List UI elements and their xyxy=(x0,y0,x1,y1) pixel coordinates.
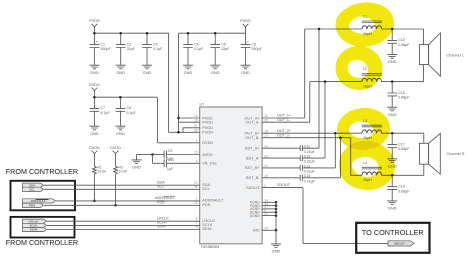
node DGND2 bus xyxy=(275,214,278,217)
connector box TO CONTROLLER xyxy=(356,223,429,253)
svg-text:10.0k: 10.0k xyxy=(97,170,106,174)
svg-text:1: 1 xyxy=(196,197,198,201)
svg-text:OUT_B-: OUT_B- xyxy=(245,135,260,140)
node PVDD rail at C2 xyxy=(119,32,122,35)
ground C18 xyxy=(387,201,397,211)
power symbol DVDD R2 xyxy=(110,146,121,154)
wire C14 to riser xyxy=(303,177,341,179)
power symbol PVDD left xyxy=(89,19,100,27)
wire C18 to ground xyxy=(391,190,393,201)
wire L1 to speaker L top xyxy=(382,28,424,30)
wire speaker R top lead xyxy=(423,133,425,143)
svg-text:C16: C16 xyxy=(398,91,405,95)
svg-text:AVDD: AVDD xyxy=(202,152,213,157)
resistor R2 xyxy=(114,166,128,175)
tag SDA xyxy=(23,183,44,187)
svg-text:L4: L4 xyxy=(363,161,367,165)
capacitor C15 xyxy=(387,38,410,47)
wire speaker R bottom lead xyxy=(423,164,425,175)
wire C11 riser xyxy=(318,29,320,148)
svg-text:FROM CONTROLLER: FROM CONTROLLER xyxy=(6,167,78,176)
svg-text:BST_B+: BST_B+ xyxy=(245,165,260,170)
svg-text:C18: C18 xyxy=(398,185,405,189)
tag LRCLK xyxy=(23,219,47,223)
ground C2 xyxy=(116,65,126,75)
svg-text:PAD: PAD xyxy=(253,229,260,233)
wire C17 to ground xyxy=(391,148,393,159)
node AGND bus xyxy=(275,208,278,211)
node PVDD rail at C4 xyxy=(187,32,190,35)
svg-text:GND: GND xyxy=(132,165,141,170)
svg-text:U?: U? xyxy=(200,102,205,106)
svg-text:10.0k: 10.0k xyxy=(119,170,128,174)
capacitor C6 xyxy=(241,39,263,51)
wire PVDD feed left vertical xyxy=(168,33,170,132)
svg-text:SDOUT: SDOUT xyxy=(246,185,260,190)
node PVDD rail at C5 xyxy=(214,32,217,35)
connector box FROM CONTROLLER 1 xyxy=(11,181,76,211)
net label ADR/FAULT xyxy=(155,196,176,200)
U1 right pin name labels xyxy=(244,115,260,232)
svg-text:OUT_1-: OUT_1- xyxy=(277,118,291,122)
svg-text:GND: GND xyxy=(272,249,281,254)
node PAD bus xyxy=(275,229,278,232)
svg-text:C8: C8 xyxy=(126,106,131,110)
capacitor C8 xyxy=(116,106,137,115)
wire PGND1 xyxy=(262,201,276,203)
svg-text:OUT_2+: OUT_2+ xyxy=(277,129,291,133)
svg-text:C3: C3 xyxy=(153,42,158,46)
wire PVDD left rail xyxy=(94,32,168,34)
svg-text:GND: GND xyxy=(211,70,220,75)
node PVDD rail at C3 xyxy=(146,32,149,35)
svg-text:VR_DIG: VR_DIG xyxy=(202,161,217,166)
svg-text:DVDD: DVDD xyxy=(89,83,100,87)
wire OUT_1- riser xyxy=(309,82,311,123)
tag SDIN xyxy=(23,227,47,231)
wire PAD xyxy=(262,229,276,231)
svg-text:C2: C2 xyxy=(127,42,132,46)
speaker Channel R xyxy=(419,133,464,174)
U1 left pin name labels xyxy=(202,115,224,231)
capacitor C5 xyxy=(210,42,230,51)
wire SCL xyxy=(44,188,200,190)
wire C12 riser xyxy=(324,82,326,159)
svg-text:PDN: PDN xyxy=(202,202,210,207)
tag SDOUT output xyxy=(388,241,414,246)
svg-text:GND: GND xyxy=(90,131,99,136)
svg-text:C4: C4 xyxy=(194,42,199,46)
ground C1 xyxy=(89,65,99,75)
wire DGND1 xyxy=(262,211,276,213)
node DVDD rail at C8 xyxy=(119,96,122,99)
wire DVDD rail xyxy=(94,96,157,98)
svg-text:PDN: PDN xyxy=(157,201,165,205)
wire OUT_2+ to L3 xyxy=(262,132,362,134)
wire speaker L top lead xyxy=(423,29,425,45)
wire C13 to riser xyxy=(303,167,336,169)
node R2 to PDN line xyxy=(114,204,117,207)
capacitor C9 xyxy=(164,149,173,161)
svg-text:C15: C15 xyxy=(398,38,405,42)
svg-text:ADR/FAULT: ADR/FAULT xyxy=(155,196,176,200)
svg-text:C7: C7 xyxy=(100,106,105,110)
ground C7 xyxy=(89,126,99,136)
svg-text:27: 27 xyxy=(194,124,198,128)
wire BST_B- pin 19 xyxy=(262,177,300,179)
wire OUT_1+ to L1 xyxy=(305,28,362,30)
wire bus to ground xyxy=(275,230,277,244)
svg-text:22µF: 22µF xyxy=(127,47,136,51)
U1 left pin numbers xyxy=(194,114,198,229)
svg-text:DVDD: DVDD xyxy=(89,146,100,150)
wire SDOUT vertical xyxy=(302,188,304,244)
capacitor C3 xyxy=(142,42,163,51)
wire PVDD stub to rail xyxy=(93,27,95,33)
wire BST_A- pin 22 xyxy=(262,157,300,159)
svg-text:SDIN: SDIN xyxy=(157,225,166,229)
ground C17 xyxy=(387,159,397,169)
svg-text:SCL: SCL xyxy=(202,186,210,191)
node C18 junction xyxy=(391,174,394,177)
svg-text:390µF: 390µF xyxy=(252,47,263,51)
wire DGND2 xyxy=(262,215,276,217)
capacitor C12 xyxy=(300,155,315,164)
svg-text:0.68µF: 0.68µF xyxy=(398,189,410,193)
svg-text:0.68µF: 0.68µF xyxy=(398,147,410,151)
capacitor C10 xyxy=(164,158,174,171)
wire C4 top xyxy=(187,33,189,44)
wire L4 to speaker R bottom xyxy=(382,174,424,176)
svg-text:0.22µF: 0.22µF xyxy=(304,179,315,183)
svg-text:0.1µF: 0.1µF xyxy=(194,47,204,51)
svg-text:PVDD: PVDD xyxy=(89,19,100,23)
inductor L3 xyxy=(362,119,382,140)
wire OUT_A+ from pin 26 xyxy=(262,117,305,119)
tag SCLK xyxy=(23,223,47,227)
svg-text:C9: C9 xyxy=(168,149,173,153)
U1 right pin numbers xyxy=(264,114,268,230)
ground C6 xyxy=(241,65,251,75)
node BST_A- cap junction xyxy=(324,80,327,83)
tag SCL xyxy=(23,187,44,191)
svg-text:4: 4 xyxy=(196,160,198,164)
wire L2 to speaker L bottom xyxy=(382,81,424,83)
svg-text:SDIN: SDIN xyxy=(202,226,211,231)
ground C4 xyxy=(183,65,193,75)
tag ADR/FAULT xyxy=(23,199,56,203)
node DVDD rail at C7 xyxy=(93,96,96,99)
svg-text:OUT_2-: OUT_2- xyxy=(277,133,291,137)
svg-text:PVDD: PVDD xyxy=(240,19,251,23)
wire C3 to ground xyxy=(146,48,148,66)
capacitor C7 xyxy=(90,106,111,115)
wire speaker L bottom lead xyxy=(423,65,425,82)
svg-text:16: 16 xyxy=(194,118,198,122)
svg-text:PVDD: PVDD xyxy=(202,130,213,135)
wire BST_A+ pin 24 xyxy=(262,147,300,149)
node DGND1 bus xyxy=(275,211,278,214)
highlight around L3 xyxy=(342,112,385,145)
wire AGND xyxy=(262,208,276,210)
svg-text:22µF: 22µF xyxy=(221,47,230,51)
svg-text:0.22µF: 0.22µF xyxy=(304,170,315,174)
svg-text:0.68µF: 0.68µF xyxy=(398,43,410,47)
wire PVDD pin 16 xyxy=(179,121,200,123)
svg-text:FROM CONTROLLER: FROM CONTROLLER xyxy=(6,238,78,247)
wire PDN xyxy=(44,204,200,206)
wire C2 top xyxy=(120,33,122,44)
svg-text:Channel L: Channel L xyxy=(447,53,464,57)
wire LRCLK xyxy=(47,220,200,222)
node PVDD pin 28 junction xyxy=(177,131,180,134)
wire C8 top xyxy=(119,97,121,108)
ground C5 xyxy=(210,65,220,75)
svg-text:1µF: 1µF xyxy=(167,167,173,171)
wire C18 top xyxy=(391,175,393,186)
svg-text:OUT_A-: OUT_A- xyxy=(245,120,260,125)
wire C16 top xyxy=(391,82,393,93)
wire OUT_1+ riser xyxy=(304,29,306,118)
wire PVDD pin 28 xyxy=(169,131,200,133)
inductor L1 xyxy=(362,15,382,36)
wire OUT_1- to L2 xyxy=(310,81,362,83)
node C15 junction xyxy=(391,28,394,31)
svg-text:BST_A+: BST_A+ xyxy=(245,146,260,151)
svg-text:28: 28 xyxy=(194,129,198,133)
wire SDA xyxy=(44,184,200,186)
net label PDN xyxy=(157,201,165,205)
svg-text:0.22µF: 0.22µF xyxy=(304,160,315,164)
wire C1 to ground xyxy=(93,48,95,66)
node BST_B+ cap junction xyxy=(334,132,337,135)
wire C6 to ground xyxy=(245,48,247,66)
svg-text:GND: GND xyxy=(388,206,397,211)
power symbol PVDD right xyxy=(240,19,251,27)
svg-text:SDOUT: SDOUT xyxy=(394,242,405,246)
wire ground stub C9 xyxy=(136,155,138,160)
node C16 junction xyxy=(391,80,394,83)
wire L3 to speaker R top xyxy=(382,132,424,134)
svg-text:DGND: DGND xyxy=(250,214,260,218)
svg-text:GND: GND xyxy=(90,70,99,75)
power symbol DVDD rail xyxy=(89,83,100,91)
node C17 junction xyxy=(391,132,394,135)
capacitor C16 xyxy=(387,91,410,100)
wire R2 bottom xyxy=(115,175,117,206)
node BST_A+ cap junction xyxy=(318,28,321,31)
wire DVDD pin 2 xyxy=(157,142,199,144)
wire to ground C9 xyxy=(137,154,153,156)
svg-text:GND: GND xyxy=(116,131,125,136)
wire C11 to riser xyxy=(303,147,319,149)
wire C17 top xyxy=(391,133,393,144)
svg-text:BST_B-: BST_B- xyxy=(246,175,260,180)
wire OUT_A- from pin 25 xyxy=(262,121,310,123)
wire C3 top xyxy=(146,33,148,44)
svg-text:SCL: SCL xyxy=(29,187,35,191)
node BST_B- cap junction xyxy=(339,136,342,139)
tag PDN xyxy=(23,203,44,207)
resistor R1 xyxy=(93,166,107,175)
svg-text:BST_A-: BST_A- xyxy=(246,155,260,160)
wire SDOUT to controller xyxy=(303,242,388,244)
wire C7 to ground xyxy=(93,111,95,126)
svg-text:SDIN: SDIN xyxy=(30,228,37,232)
svg-text:15: 15 xyxy=(194,151,198,155)
wire VR_DIG pin 4 xyxy=(167,162,200,164)
inductor L4 xyxy=(362,161,382,182)
ground C9 C10 xyxy=(132,160,142,170)
wire AVDD pin 15 xyxy=(167,154,200,156)
inductor L2 xyxy=(362,67,382,88)
node PVDD rail at C1 xyxy=(93,32,96,35)
wire C8 to ground xyxy=(119,111,121,126)
svg-text:0.1µF: 0.1µF xyxy=(153,47,163,51)
wire DVDD stub xyxy=(93,91,95,98)
ground C3 xyxy=(142,65,152,75)
svg-text:0.68µF: 0.68µF xyxy=(398,96,410,100)
wire PVDD feed right vertical xyxy=(178,33,180,132)
wire C5 to ground xyxy=(214,48,216,66)
svg-text:PVDD: PVDD xyxy=(202,120,213,125)
capacitor C17 xyxy=(387,142,410,151)
wire ground bus vertical xyxy=(275,202,277,230)
wire C7 top xyxy=(93,97,95,108)
capacitor C18 xyxy=(387,185,410,194)
wire VR_DIG cap left xyxy=(152,162,164,164)
node PGND1 bus xyxy=(275,201,278,204)
wire SDOUT from pin 9 xyxy=(262,187,303,189)
svg-text:L2: L2 xyxy=(363,67,367,71)
highlight around L2 xyxy=(340,50,378,85)
wire R2 top xyxy=(115,154,117,166)
svg-text:0.1µF: 0.1µF xyxy=(126,111,136,115)
wire PVDD right rail xyxy=(179,32,246,34)
wire C16 to ground xyxy=(391,96,393,107)
wire C15 top xyxy=(391,29,393,40)
capacitor C14 xyxy=(300,174,315,183)
wire ADR/FAULT xyxy=(56,200,200,202)
wire PVDD pin 27 elbow xyxy=(182,128,184,133)
svg-text:TO CONTROLLER: TO CONTROLLER xyxy=(362,228,424,237)
wire C6 top xyxy=(245,33,247,44)
capacitor C13 xyxy=(300,164,315,173)
speaker Channel L xyxy=(419,33,463,76)
ground IC bus xyxy=(271,244,281,254)
wire SDIN xyxy=(47,229,200,231)
svg-text:4.7µF: 4.7µF xyxy=(100,111,110,115)
svg-text:GND: GND xyxy=(388,112,397,117)
wire C13 riser xyxy=(334,133,336,168)
wire R1 bottom xyxy=(93,175,95,201)
svg-text:PDN: PDN xyxy=(29,203,36,207)
wire C9 C10 common vertical xyxy=(151,155,153,164)
svg-text:DVDD: DVDD xyxy=(110,146,121,150)
svg-text:390µF: 390µF xyxy=(100,47,111,51)
node R1 to ADR/FAULT line xyxy=(93,200,96,203)
wire OUT_2- to L4 xyxy=(262,138,362,176)
wire PVDD pin 27 xyxy=(183,127,200,129)
svg-text:C6: C6 xyxy=(252,42,257,46)
svg-text:12: 12 xyxy=(194,201,198,205)
wire C14 riser xyxy=(339,138,341,178)
svg-text:C5: C5 xyxy=(221,42,226,46)
svg-text:SCL: SCL xyxy=(157,185,164,189)
svg-text:GND: GND xyxy=(241,70,250,75)
svg-text:GND: GND xyxy=(116,70,125,75)
wire C4 to ground xyxy=(187,48,189,66)
ground C16 xyxy=(387,107,397,117)
svg-text:C1: C1 xyxy=(100,42,105,46)
capacitor C1 xyxy=(90,39,112,51)
wire C15 to ground xyxy=(391,43,393,54)
svg-text:0.22µF: 0.22µF xyxy=(304,150,315,154)
wire R1 top xyxy=(93,154,95,166)
svg-text:GND: GND xyxy=(388,59,397,64)
node PVDD pin 13 junction xyxy=(177,117,180,120)
svg-text:2: 2 xyxy=(196,139,198,143)
svg-text:SDOUT: SDOUT xyxy=(277,183,291,187)
capacitor C2 xyxy=(116,42,136,51)
svg-text:C10: C10 xyxy=(168,158,174,162)
wire AVDD cap left xyxy=(152,154,164,156)
wire C12 to riser xyxy=(303,157,325,159)
capacitor C11 xyxy=(300,145,315,154)
connector box FROM CONTROLLER 2 xyxy=(11,217,75,238)
highlight around L4 xyxy=(343,145,390,186)
op-amp U1 TAS5805M IC body xyxy=(200,102,263,249)
svg-text:C17: C17 xyxy=(398,142,405,146)
wire BST_B+ pin 20 xyxy=(262,167,300,169)
capacitor C4 xyxy=(183,42,204,51)
node C9 C10 common xyxy=(151,153,154,156)
wire PGND2 xyxy=(262,205,276,207)
wire DVDD feed vertical xyxy=(156,97,158,143)
ground C15 xyxy=(387,55,397,65)
node PGND2 bus xyxy=(275,204,278,207)
svg-text:GND: GND xyxy=(184,70,193,75)
wire SCLK xyxy=(47,224,200,226)
svg-text:DVDD: DVDD xyxy=(202,140,213,145)
svg-text:GND: GND xyxy=(143,70,152,75)
wire C2 to ground xyxy=(120,48,122,66)
ground C8 xyxy=(115,126,125,136)
wire C5 top xyxy=(214,33,216,44)
wire PVDD stub right xyxy=(245,27,247,33)
wire PVDD pin 13 xyxy=(179,117,200,119)
svg-text:Channel R: Channel R xyxy=(447,152,465,156)
highlight around L1 xyxy=(340,6,389,42)
svg-text:TAS5805M: TAS5805M xyxy=(201,245,220,249)
power symbol DVDD R1 xyxy=(89,146,100,154)
wire C1 top xyxy=(93,33,95,44)
